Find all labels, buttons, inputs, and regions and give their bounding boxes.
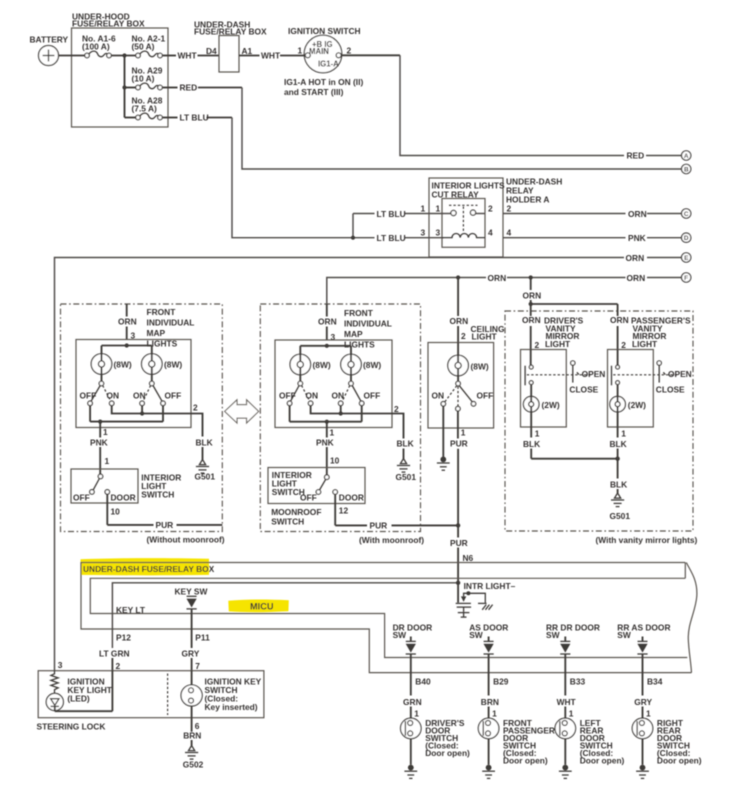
svg-text:MAP: MAP [344, 329, 363, 339]
svg-text:1: 1 [569, 708, 574, 718]
svg-text:IG1-A HOT in ON (II): IG1-A HOT in ON (II) [284, 77, 363, 87]
svg-text:INDIVIDUAL: INDIVIDUAL [344, 319, 392, 329]
svg-text:(100 A): (100 A) [82, 42, 110, 52]
svg-text:ON: ON [306, 391, 319, 401]
svg-text:1: 1 [421, 204, 426, 214]
svg-text:2: 2 [193, 403, 198, 413]
svg-text:3: 3 [436, 228, 441, 238]
svg-text:Door open): Door open) [657, 756, 702, 766]
svg-text:B: B [684, 166, 689, 173]
svg-text:2: 2 [347, 46, 352, 56]
svg-text:SW: SW [546, 630, 560, 640]
svg-text:FUSE/RELAY BOX: FUSE/RELAY BOX [72, 19, 145, 29]
svg-text:ORN: ORN [523, 291, 542, 301]
svg-text:MAIN: MAIN [309, 47, 329, 56]
svg-text:WHT: WHT [557, 697, 577, 707]
svg-text:Door open): Door open) [580, 756, 625, 766]
svg-text:B33: B33 [570, 677, 586, 687]
svg-text:(10 A): (10 A) [132, 74, 155, 84]
svg-text:BATTERY: BATTERY [30, 35, 69, 45]
svg-text:OFF: OFF [73, 492, 90, 502]
svg-text:3: 3 [421, 228, 426, 238]
svg-text:1: 1 [461, 428, 466, 438]
svg-text:ON: ON [332, 391, 345, 401]
svg-text:6: 6 [195, 721, 200, 731]
svg-text:(50 A): (50 A) [132, 42, 155, 52]
svg-text:ORN: ORN [118, 317, 137, 327]
svg-text:P12: P12 [116, 633, 131, 643]
svg-text:ORN: ORN [318, 317, 337, 327]
svg-text:2: 2 [621, 340, 626, 350]
svg-text:C: C [684, 211, 689, 218]
svg-text:FRONT: FRONT [344, 308, 374, 318]
svg-text:B29: B29 [493, 677, 509, 687]
svg-text:ORN: ORN [522, 315, 541, 325]
svg-text:MICU: MICU [250, 602, 274, 612]
svg-text:SW: SW [393, 630, 407, 640]
svg-text:(With vanity mirror lights): (With vanity mirror lights) [596, 535, 698, 545]
svg-text:WHT: WHT [261, 51, 281, 61]
svg-text:(8W): (8W) [471, 362, 489, 372]
svg-text:12: 12 [339, 506, 349, 516]
svg-text:LT BLU: LT BLU [377, 233, 406, 243]
svg-text:(With moonroof): (With moonroof) [359, 535, 424, 545]
svg-text:F: F [684, 275, 688, 282]
svg-text:ON: ON [432, 390, 445, 400]
svg-text:BLK: BLK [610, 439, 627, 449]
svg-text:A1: A1 [242, 46, 253, 56]
svg-text:GRY: GRY [182, 649, 200, 659]
svg-text:BLK: BLK [523, 439, 540, 449]
svg-text:(8W): (8W) [363, 360, 381, 370]
svg-text:BRN: BRN [481, 697, 499, 707]
svg-text:OPEN: OPEN [668, 369, 692, 379]
svg-text:10: 10 [111, 507, 121, 517]
svg-text:GRY: GRY [634, 697, 652, 707]
svg-text:INTR LIGHT–: INTR LIGHT– [464, 581, 516, 591]
svg-text:IGNITION SWITCH: IGNITION SWITCH [288, 26, 361, 36]
svg-text:(2W): (2W) [542, 400, 560, 410]
svg-text:B34: B34 [647, 677, 663, 687]
svg-text:Door open): Door open) [425, 748, 470, 758]
svg-text:INDIVIDUAL: INDIVIDUAL [147, 318, 195, 328]
svg-text:(LED): (LED) [67, 694, 90, 704]
svg-text:Door open): Door open) [503, 756, 548, 766]
svg-text:OFF: OFF [80, 391, 97, 401]
svg-text:2: 2 [116, 661, 121, 671]
svg-text:LIGHT: LIGHT [472, 332, 498, 342]
svg-text:ORN: ORN [610, 315, 629, 325]
svg-text:BLK: BLK [610, 480, 627, 490]
svg-text:CLOSE: CLOSE [656, 385, 685, 395]
svg-text:1: 1 [298, 46, 303, 56]
svg-text:2: 2 [535, 340, 540, 350]
svg-text:1: 1 [414, 708, 419, 718]
svg-text:CLOSE: CLOSE [569, 385, 598, 395]
svg-text:OPEN: OPEN [582, 369, 606, 379]
svg-text:OFF: OFF [477, 390, 494, 400]
svg-text:G501: G501 [396, 472, 417, 482]
svg-text:PUR: PUR [370, 521, 388, 531]
svg-text:PNK: PNK [90, 438, 108, 448]
svg-text:BRN: BRN [183, 731, 201, 741]
svg-text:and START (III): and START (III) [284, 87, 344, 97]
svg-text:LT BLU: LT BLU [377, 209, 406, 219]
svg-text:DOOR: DOOR [339, 492, 364, 502]
svg-text:G501: G501 [610, 511, 631, 521]
svg-text:D: D [684, 235, 689, 242]
svg-text:P11: P11 [195, 633, 210, 643]
svg-text:A: A [684, 153, 689, 160]
svg-text:KEY SW: KEY SW [175, 587, 208, 597]
svg-text:(2W): (2W) [628, 400, 646, 410]
svg-text:ON: ON [107, 391, 120, 401]
svg-text:PNK: PNK [628, 233, 646, 243]
svg-text:STEERING LOCK: STEERING LOCK [37, 722, 106, 732]
svg-text:10: 10 [330, 456, 340, 466]
svg-text:WHT: WHT [178, 51, 198, 61]
svg-text:RED: RED [180, 83, 198, 93]
svg-text:ON: ON [133, 391, 146, 401]
svg-text:SW: SW [617, 630, 631, 640]
svg-text:ORN: ORN [627, 273, 646, 283]
svg-text:MAP: MAP [147, 328, 166, 338]
svg-text:BLK: BLK [397, 439, 414, 449]
svg-text:SWITCH: SWITCH [271, 517, 304, 527]
svg-text:ORN: ORN [488, 273, 507, 283]
svg-text:LIGHTS: LIGHTS [344, 340, 375, 350]
svg-text:SWITCH: SWITCH [141, 490, 174, 500]
svg-text:UNDER-DASH FUSE/RELAY BOX: UNDER-DASH FUSE/RELAY BOX [83, 564, 215, 574]
svg-text:1: 1 [330, 428, 335, 438]
svg-text:(8W): (8W) [114, 360, 132, 370]
svg-text:LT GRN: LT GRN [99, 649, 130, 659]
svg-text:1: 1 [436, 204, 441, 214]
svg-text:4: 4 [488, 228, 493, 238]
svg-text:RED: RED [627, 151, 645, 161]
svg-text:1: 1 [535, 429, 540, 439]
svg-text:OFF: OFF [279, 391, 296, 401]
svg-text:Key inserted): Key inserted) [205, 702, 258, 712]
svg-text:PUR: PUR [156, 520, 174, 530]
svg-text:DOOR: DOOR [111, 492, 136, 502]
svg-text:(8W): (8W) [313, 360, 331, 370]
svg-text:2: 2 [507, 204, 512, 214]
svg-text:SW: SW [469, 630, 483, 640]
svg-text:BLK: BLK [196, 438, 213, 448]
svg-text:E: E [684, 255, 689, 262]
svg-text:PNK: PNK [316, 438, 334, 448]
svg-text:B40: B40 [415, 677, 431, 687]
svg-text:G502: G502 [183, 760, 204, 770]
svg-text:(7.5 A): (7.5 A) [132, 104, 157, 114]
svg-text:ORN: ORN [450, 316, 469, 326]
svg-text:OFF: OFF [364, 391, 381, 401]
svg-text:GRN: GRN [403, 697, 422, 707]
svg-text:7: 7 [195, 661, 200, 671]
svg-text:2: 2 [461, 331, 466, 341]
svg-text:D4: D4 [206, 46, 217, 56]
svg-text:1: 1 [646, 708, 651, 718]
svg-text:PUR: PUR [450, 439, 468, 449]
svg-text:MOONROOF: MOONROOF [271, 507, 321, 517]
svg-text:OFF: OFF [165, 391, 182, 401]
svg-text:FRONT: FRONT [147, 307, 177, 317]
svg-text:ORN: ORN [628, 209, 647, 219]
svg-text:1: 1 [492, 708, 497, 718]
svg-text:HOLDER A: HOLDER A [506, 195, 549, 205]
svg-text:OFF: OFF [300, 492, 317, 502]
svg-text:3: 3 [58, 660, 63, 670]
svg-text:KEY LT: KEY LT [116, 605, 146, 615]
svg-text:4: 4 [507, 228, 512, 238]
svg-text:1: 1 [105, 456, 110, 466]
svg-text:G501: G501 [195, 472, 216, 482]
svg-text:LIGHT: LIGHT [632, 339, 658, 349]
svg-text:2: 2 [394, 404, 399, 414]
svg-text:PUR: PUR [450, 538, 468, 548]
svg-text:LT BLU: LT BLU [180, 113, 209, 123]
svg-text:2: 2 [488, 204, 493, 214]
svg-text:FUSE/RELAY BOX: FUSE/RELAY BOX [194, 27, 267, 37]
svg-text:ORN: ORN [626, 253, 645, 263]
svg-text:(8W): (8W) [164, 360, 182, 370]
svg-text:1: 1 [103, 427, 108, 437]
svg-text:LIGHT: LIGHT [545, 339, 571, 349]
svg-text:N6: N6 [463, 553, 474, 563]
svg-text:(Without moonroof): (Without moonroof) [147, 535, 225, 545]
svg-text:IG1-A: IG1-A [318, 60, 339, 69]
svg-text:1: 1 [621, 429, 626, 439]
